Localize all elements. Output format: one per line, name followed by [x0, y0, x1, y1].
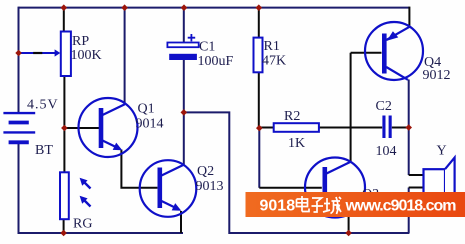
transistor Q2 — [140, 160, 197, 217]
svg-text:9018: 9018 — [260, 198, 296, 215]
svg-text:RP: RP — [72, 34, 89, 49]
junction dot node A RP/RG/Q1 base — [61, 125, 68, 132]
photoresistor RG — [60, 172, 91, 219]
junction dot C1 bottom — [181, 109, 188, 116]
label Q4 — [424, 55, 441, 70]
svg-text:BT: BT — [35, 143, 53, 158]
label BT — [35, 143, 53, 158]
junction dot top rail at C1 — [181, 4, 188, 11]
label Y — [437, 144, 447, 159]
label 9013 — [196, 179, 224, 194]
transistor Q3 — [305, 158, 365, 218]
label Q1 — [138, 102, 155, 117]
svg-text:R1: R1 — [264, 39, 280, 54]
label 9014 — [136, 117, 164, 132]
wire bottom rail left segment — [18, 232, 184, 234]
label 47K — [262, 54, 286, 69]
label 100K — [71, 48, 102, 63]
label RG — [73, 217, 92, 232]
battery BT — [3, 113, 35, 142]
label 104 — [376, 144, 397, 159]
potentiometer RP — [19, 32, 71, 77]
wire node A to Q1 base — [64, 127, 99, 129]
wire top supply rail — [19, 7, 410, 9]
svg-text:Y: Y — [437, 144, 447, 159]
wire speaker bottom terminal — [409, 187, 424, 189]
label 1K — [288, 136, 305, 151]
transistor Q1 — [79, 98, 138, 157]
wire node A to RG top — [63, 128, 65, 172]
svg-text:1K: 1K — [288, 136, 305, 151]
wire top rail corner down to Q4 emitter — [408, 7, 410, 27]
junction dot RG bottom rail — [60, 230, 67, 237]
resistor R1 — [254, 38, 263, 73]
junction dot top rail at R1 — [256, 4, 263, 11]
svg-text:9014: 9014 — [136, 117, 164, 132]
junction dot top rail at Q1 collector — [121, 4, 128, 11]
svg-text:4.5V: 4.5V — [27, 98, 59, 113]
wire Q4 base line — [351, 52, 382, 54]
wire left rail (battery column) — [18, 7, 20, 234]
wire C1 minus plate to junction, continuing to Q2 collector — [183, 60, 185, 165]
label Q2 — [197, 164, 214, 179]
label RP — [72, 34, 89, 49]
junction dot left rail wiper tap — [15, 50, 22, 57]
label C1 — [199, 40, 215, 55]
wire from C1 junction right then down to bottom rail right segment — [184, 112, 409, 233]
junction dot C2 right / Q4 collector — [405, 124, 412, 131]
wire top rail to C1 plus plate — [183, 8, 185, 43]
capacitor C2 — [382, 116, 391, 139]
wire Q3 emitter to bottom rail — [348, 214, 350, 233]
wire RG bottom to bottom rail — [63, 219, 65, 233]
speaker Y — [424, 158, 455, 206]
wire R1 bottom to R1/R2 junction — [258, 72, 260, 128]
label C2 — [376, 99, 392, 114]
wire RP bottom to junction node A — [63, 76, 65, 128]
junction dot top rail at RP — [61, 4, 68, 11]
wire Q2 emitter to bottom rail — [180, 211, 182, 233]
wire Q4 collector down to C2 junction — [408, 80, 410, 128]
svg-text:100uF: 100uF — [198, 54, 234, 69]
wire speaker bottom terminal down to bottom rail — [408, 188, 410, 234]
svg-text:9012: 9012 — [423, 68, 451, 83]
label R2 — [284, 109, 300, 124]
wire R2 right to C2 left plate — [319, 127, 382, 129]
wire top rail to R1 top — [258, 8, 260, 38]
svg-text:Q2: Q2 — [197, 164, 214, 179]
label Q3 — [362, 187, 379, 202]
svg-text:R2: R2 — [284, 109, 300, 124]
svg-text:C2: C2 — [376, 99, 392, 114]
wire top rail to Q1 collector — [124, 8, 126, 105]
label 4.5V — [27, 98, 59, 113]
junction dot R1/R2 — [256, 125, 263, 132]
wire stub top rail to RP top — [63, 8, 65, 32]
transistor Q4 — [365, 22, 423, 80]
wire R1/R2 junction to R2 left — [259, 127, 273, 129]
label 100uF — [198, 54, 234, 69]
wire R1/R2 junction down to Q3 base — [258, 128, 260, 188]
wire speaker top terminal — [409, 174, 424, 176]
resistor R2 — [274, 123, 319, 132]
watermark CJK characters 电子城 — [297, 196, 342, 214]
wire Q4 base down to Q3 collector — [350, 53, 352, 162]
wire C2 junction down to speaker top terminal — [408, 128, 410, 176]
svg-text:100K: 100K — [71, 48, 102, 63]
capacitor C1 — [167, 34, 198, 60]
svg-text:104: 104 — [376, 144, 397, 159]
svg-text:47K: 47K — [262, 54, 286, 69]
watermark banner — [246, 192, 465, 217]
svg-text:Q1: Q1 — [138, 102, 155, 117]
label 9012 — [423, 68, 451, 83]
svg-text:9013: 9013 — [196, 179, 224, 194]
wire Q3 base line from junction column — [259, 187, 322, 189]
wire Q1 emitter to Q2 base — [121, 150, 157, 188]
junction dot Q3 emitter bottom rail — [345, 230, 352, 237]
svg-text:RG: RG — [73, 217, 92, 232]
label R1 — [264, 39, 280, 54]
svg-text:C1: C1 — [199, 40, 215, 55]
svg-text:www.c9018.com: www.c9018.com — [345, 198, 457, 215]
wire C2 right plate to Q4 collector junction — [392, 127, 408, 129]
